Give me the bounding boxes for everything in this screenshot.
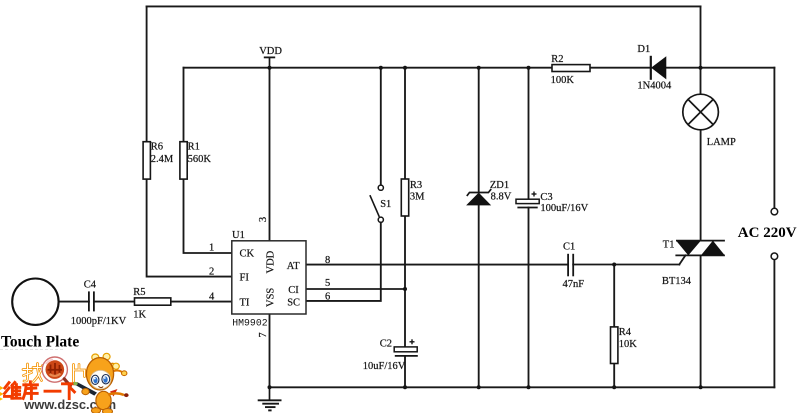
junction ground rail at ZD1 [477,385,481,389]
svg-text:4: 4 [209,291,215,302]
svg-text:8.8V: 8.8V [491,192,512,203]
svg-text:10uF/16V: 10uF/16V [363,361,406,372]
wire lamp to triac [700,130,702,241]
junction VDD rail at S1 [379,66,383,70]
zener diode ZD1 [467,180,512,205]
svg-text:2.4M: 2.4M [151,154,174,165]
svg-text:3: 3 [258,217,269,222]
svg-text:100uF/16V: 100uF/16V [540,203,588,214]
wire AT pin to C1 [306,264,568,266]
junction VDD rail at ZD1 [477,66,481,70]
svg-text:2: 2 [209,267,214,278]
wire bottom ground rail [270,386,775,388]
node CI at R3 C2 [403,287,407,291]
svg-text:8: 8 [325,255,330,266]
op-amp U1 HM9902 IC [232,230,306,328]
resistor R5 [133,287,171,321]
svg-text:1K: 1K [133,309,146,320]
svg-text:VDD: VDD [266,250,277,273]
wire R2 to D1 [590,67,651,69]
svg-text:VDD: VDD [259,46,282,57]
wire pin3 VDD to rail [269,68,271,241]
capacitor C2 polarized [363,338,418,372]
resistor R3 [401,179,425,216]
svg-text:AT: AT [287,261,300,272]
svg-text:R2: R2 [551,54,563,65]
wire VDD rail to ZD1 [478,68,480,192]
wire top rail down to lamp node [700,6,702,94]
power VDD symbol [259,46,282,67]
svg-text:7: 7 [258,332,269,337]
svg-text:10K: 10K [619,339,638,350]
svg-text:R5: R5 [133,287,145,298]
wire R3 to C2 [404,216,406,347]
resistor R4 [611,327,638,364]
svg-text:TI: TI [240,297,250,308]
wire VDD rail to C3 [528,68,530,200]
junction VDD rail at pin3 [268,66,272,70]
svg-text:5: 5 [325,278,330,289]
wire gate node to R4 [613,265,615,327]
wire C3 to ground rail [528,208,530,388]
svg-text:Touch Plate: Touch Plate [1,334,79,351]
junction VDD rail at R3 [403,66,407,70]
svg-text:3M: 3M [410,192,425,203]
capacitor C1 [563,242,585,290]
wire R4 to ground rail [613,364,615,388]
svg-text:C4: C4 [84,279,97,290]
wire CI pin to node [306,288,405,290]
wire VDD rail down to R1 [183,68,185,142]
svg-text:47nF: 47nF [563,279,585,290]
junction ground at pin7 [268,385,272,389]
svg-text:560K: 560K [188,154,212,165]
svg-text:100K: 100K [551,75,575,86]
svg-text:ZD1: ZD1 [490,180,509,191]
wire SC pin to S1 [306,222,381,301]
wire left drop to R6 [146,6,148,141]
svg-text:D1: D1 [637,44,650,55]
resistor R6 [143,142,174,180]
wire touch plate to C4 [59,301,89,303]
resistor R2 [551,54,590,86]
svg-text:CI: CI [288,285,299,296]
svg-text:C2: C2 [380,338,392,349]
node gate at C1 R4 [612,263,616,267]
svg-text:R4: R4 [619,327,632,338]
svg-text:C1: C1 [563,242,575,253]
touch plate electrode [1,279,79,351]
svg-text:U1: U1 [232,230,245,241]
svg-text:1000pF/1KV: 1000pF/1KV [71,316,127,327]
svg-text:T1: T1 [663,239,675,250]
node D1 lamp junction [699,66,703,70]
wire gate diagonal to triac [679,255,685,264]
svg-text:S1: S1 [380,199,391,210]
AC source terminals [738,208,797,259]
svg-text:R1: R1 [188,142,200,153]
junction VDD rail at C3 [527,66,531,70]
wire VDD rail to R3 [404,68,406,179]
wire R5 to TI pin [171,301,232,303]
svg-text:FI: FI [240,272,250,283]
wire C2 to ground rail [404,357,406,388]
wire top rail [147,5,701,7]
wire R1 bottom to CK pin [184,179,232,253]
wire C4 to R5 [94,301,135,303]
junction ground rail at R4 [612,385,616,389]
triac T1 BT134 [662,239,725,287]
junction ground rail at T1 [699,385,703,389]
wire pin7 VSS down [269,314,271,387]
ground symbol [258,387,282,410]
svg-text:R3: R3 [410,180,422,191]
junction ground rail at C3 [527,385,531,389]
svg-text:CK: CK [240,248,255,259]
watermark logo dzsc [0,350,129,413]
wire C1 to gate node [573,264,679,266]
wire VDD rail [184,67,553,69]
svg-text:C3: C3 [540,192,552,203]
resistor R1 [180,142,211,180]
wire D1 to lamp node [666,67,701,69]
svg-text:SC: SC [287,297,300,308]
lamp [683,94,736,148]
svg-text:VSS: VSS [266,288,277,307]
switch S1 [370,185,391,222]
svg-text:LAMP: LAMP [707,137,736,148]
svg-text:BT134: BT134 [662,276,692,287]
junction ground rail at C2 [403,385,407,389]
wire lamp node to AC line [701,67,775,69]
wire AC top terminal [773,68,775,209]
capacitor C3 polarized [516,192,589,214]
svg-text:HM9902: HM9902 [232,318,267,329]
wire S1 top to VDD rail [380,68,382,186]
wire R6 bottom to FI corner [147,179,232,277]
wire AC bottom terminal to ground rail [773,259,775,387]
svg-text:1N4004: 1N4004 [637,81,672,92]
svg-text:R6: R6 [151,142,163,153]
svg-text:1: 1 [209,242,214,253]
svg-text:AC 220V: AC 220V [738,225,797,241]
wire ZD1 to ground rail [478,205,480,387]
svg-text:6: 6 [325,291,330,302]
capacitor C4 [71,279,127,327]
diode D1 1N4004 [637,44,672,92]
wire triac to ground rail [700,255,702,387]
